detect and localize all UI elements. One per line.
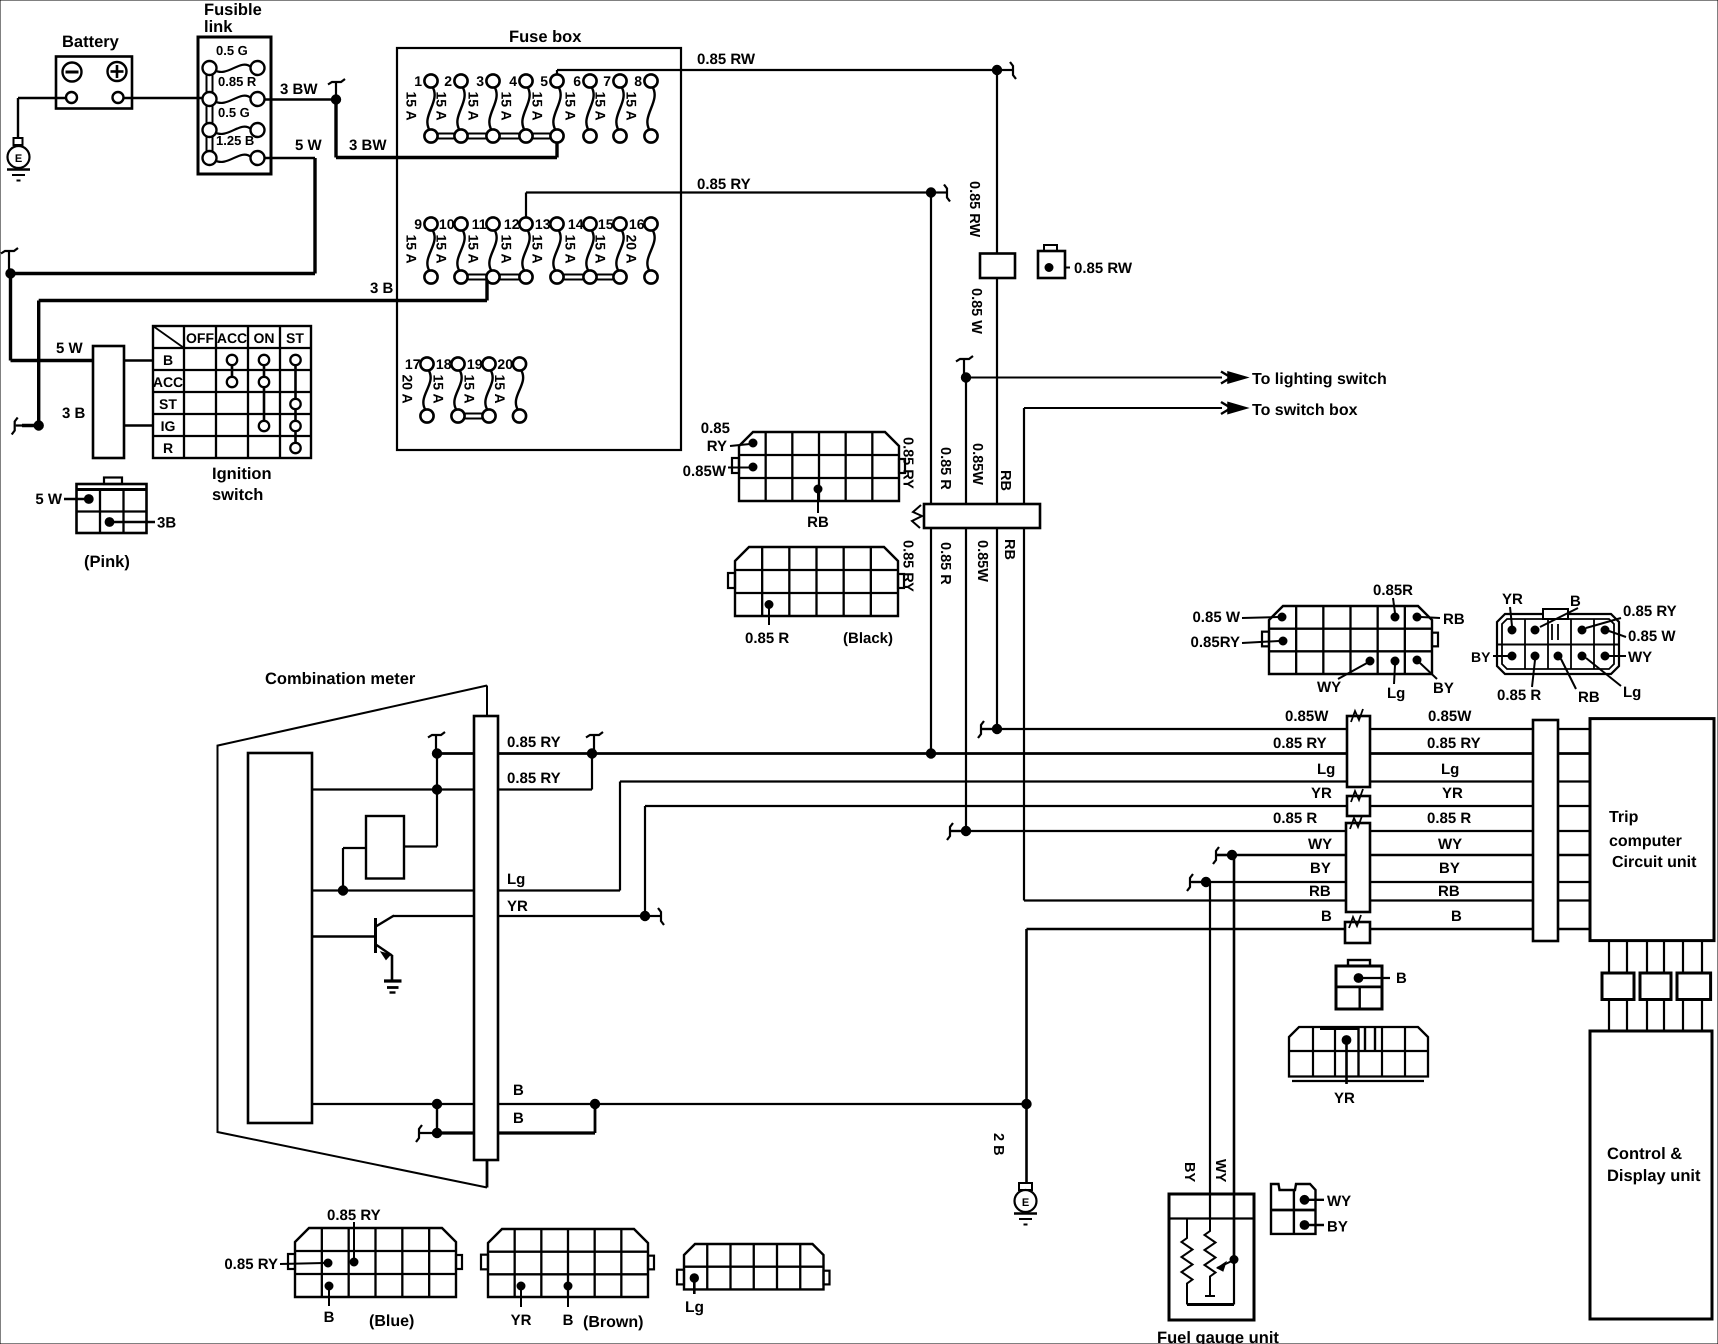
svg-text:(Black): (Black) — [843, 630, 893, 647]
svg-text:15 A: 15 A — [624, 92, 640, 121]
svg-text:0.85 R: 0.85 R — [218, 74, 257, 89]
svg-text:Control &: Control & — [1607, 1145, 1682, 1163]
svg-text:ST: ST — [159, 396, 177, 412]
svg-text:RY: RY — [707, 438, 727, 455]
svg-text:15 A: 15 A — [466, 92, 482, 121]
svg-text:0.85 RW: 0.85 RW — [966, 181, 982, 237]
svg-text:0.85W: 0.85W — [683, 463, 727, 480]
svg-text:BY: BY — [1433, 680, 1454, 697]
svg-text:15 A: 15 A — [434, 235, 450, 264]
svg-text:15 A: 15 A — [499, 235, 515, 264]
svg-text:B: B — [513, 1110, 524, 1127]
svg-text:YR: YR — [511, 1312, 532, 1329]
svg-text:To switch box: To switch box — [1252, 402, 1358, 419]
svg-text:0.5 G: 0.5 G — [216, 43, 248, 58]
svg-text:0.85W: 0.85W — [969, 443, 985, 485]
svg-text:5 W: 5 W — [56, 340, 84, 357]
svg-text:link: link — [204, 18, 233, 36]
svg-text:Lg: Lg — [1441, 761, 1459, 778]
svg-text:B: B — [563, 1312, 574, 1329]
svg-text:RB: RB — [997, 470, 1013, 491]
svg-text:Lg: Lg — [685, 1299, 704, 1316]
svg-text:(Pink): (Pink) — [84, 553, 130, 571]
svg-text:1.25 B: 1.25 B — [216, 133, 254, 148]
svg-text:3: 3 — [476, 73, 484, 89]
svg-text:0.85 RY: 0.85 RY — [1273, 735, 1327, 752]
svg-text:0.85 R: 0.85 R — [745, 630, 789, 647]
svg-text:0.85 W: 0.85 W — [968, 288, 984, 334]
svg-text:15 A: 15 A — [431, 375, 447, 404]
svg-text:15 A: 15 A — [563, 92, 579, 121]
svg-text:0.85 W: 0.85 W — [1192, 609, 1240, 626]
svg-text:OFF: OFF — [186, 330, 214, 346]
svg-text:R: R — [163, 440, 173, 456]
svg-text:Circuit unit: Circuit unit — [1612, 854, 1697, 871]
svg-text:E: E — [15, 153, 22, 165]
svg-text:0.85 RY: 0.85 RY — [900, 540, 916, 592]
svg-text:BY: BY — [1327, 1219, 1348, 1236]
svg-text:RB: RB — [1578, 689, 1600, 706]
svg-text:20 A: 20 A — [400, 375, 416, 404]
svg-text:4: 4 — [509, 73, 517, 89]
svg-text:WY: WY — [1212, 1159, 1228, 1183]
svg-text:1: 1 — [414, 73, 422, 89]
svg-text:0.85 RY: 0.85 RY — [224, 1256, 278, 1273]
svg-text:5 W: 5 W — [35, 491, 63, 508]
svg-text:15 A: 15 A — [466, 235, 482, 264]
svg-text:Fuse box: Fuse box — [509, 28, 582, 46]
svg-text:2 B: 2 B — [990, 1133, 1006, 1156]
svg-text:0.85 RY: 0.85 RY — [507, 734, 561, 751]
svg-text:ON: ON — [254, 330, 275, 346]
svg-text:2: 2 — [444, 73, 452, 89]
svg-text:B: B — [163, 352, 173, 368]
svg-text:YR: YR — [1334, 1090, 1355, 1107]
svg-text:5 W: 5 W — [295, 137, 323, 154]
svg-text:Display unit: Display unit — [1607, 1167, 1701, 1185]
svg-text:3 BW: 3 BW — [349, 137, 387, 154]
svg-text:9: 9 — [414, 216, 422, 232]
svg-text:BY: BY — [1181, 1162, 1197, 1182]
svg-text:0.85W: 0.85W — [1285, 708, 1329, 725]
svg-text:15 A: 15 A — [593, 92, 609, 121]
svg-text:B: B — [1321, 908, 1332, 925]
svg-text:RB: RB — [1443, 611, 1465, 628]
svg-text:YR: YR — [507, 898, 528, 915]
svg-text:E: E — [1022, 1197, 1029, 1209]
svg-text:0.85 RY: 0.85 RY — [507, 770, 561, 787]
svg-text:15 A: 15 A — [404, 92, 420, 121]
svg-text:3 B: 3 B — [62, 405, 86, 422]
svg-text:RB: RB — [1309, 883, 1331, 900]
svg-text:0.85 RY: 0.85 RY — [1623, 603, 1677, 620]
svg-text:Lg: Lg — [1623, 684, 1641, 701]
svg-text:15 A: 15 A — [530, 235, 546, 264]
svg-text:3B: 3B — [157, 515, 176, 532]
svg-text:To lighting switch: To lighting switch — [1252, 371, 1387, 388]
svg-text:IG: IG — [161, 418, 176, 434]
svg-text:B: B — [324, 1309, 335, 1326]
svg-text:15 A: 15 A — [492, 375, 508, 404]
svg-text:15 A: 15 A — [462, 375, 478, 404]
svg-text:20: 20 — [497, 356, 513, 372]
svg-text:0.85 W: 0.85 W — [1628, 628, 1676, 645]
svg-text:16: 16 — [629, 216, 645, 232]
svg-text:ST: ST — [286, 330, 304, 346]
svg-text:B: B — [1396, 970, 1407, 987]
svg-text:6: 6 — [573, 73, 581, 89]
svg-text:WY: WY — [1628, 649, 1652, 666]
svg-text:10: 10 — [439, 216, 455, 232]
svg-text:0.85 R: 0.85 R — [937, 447, 953, 490]
svg-text:15 A: 15 A — [404, 235, 420, 264]
svg-text:15 A: 15 A — [499, 92, 515, 121]
svg-text:8: 8 — [634, 73, 642, 89]
svg-text:ACC: ACC — [217, 330, 247, 346]
svg-text:Lg: Lg — [1317, 761, 1335, 778]
svg-text:B: B — [1570, 593, 1581, 610]
svg-text:switch: switch — [212, 486, 263, 504]
svg-text:0.85 RW: 0.85 RW — [697, 51, 756, 68]
svg-text:0.85: 0.85 — [701, 420, 730, 437]
svg-text:WY: WY — [1317, 679, 1341, 696]
svg-text:0.85 RY: 0.85 RY — [900, 437, 916, 489]
svg-text:B: B — [1451, 908, 1462, 925]
svg-text:15 A: 15 A — [593, 235, 609, 264]
svg-text:0.5 G: 0.5 G — [218, 105, 250, 120]
svg-text:15 A: 15 A — [530, 92, 546, 121]
svg-text:15 A: 15 A — [563, 235, 579, 264]
svg-text:Lg: Lg — [507, 871, 525, 888]
svg-text:11: 11 — [472, 216, 487, 232]
svg-text:Ignition: Ignition — [212, 465, 272, 483]
svg-text:WY: WY — [1438, 836, 1462, 853]
svg-text:Combination meter: Combination meter — [265, 670, 416, 688]
svg-text:YR: YR — [1311, 785, 1332, 802]
svg-text:14: 14 — [568, 216, 584, 232]
svg-text:YR: YR — [1502, 591, 1523, 608]
svg-text:0.85 RY: 0.85 RY — [1427, 735, 1481, 752]
svg-text:Lg: Lg — [1387, 685, 1405, 702]
svg-text:19: 19 — [467, 356, 483, 372]
svg-text:20 A: 20 A — [624, 235, 640, 264]
svg-text:(Blue): (Blue) — [369, 1313, 414, 1330]
svg-text:18: 18 — [436, 356, 452, 372]
svg-text:0.85W: 0.85W — [1428, 708, 1472, 725]
svg-text:13: 13 — [535, 216, 551, 232]
svg-text:15: 15 — [598, 216, 614, 232]
svg-text:0.85RY: 0.85RY — [1191, 634, 1240, 651]
svg-text:RB: RB — [807, 514, 829, 531]
svg-text:15 A: 15 A — [434, 92, 450, 121]
svg-text:WY: WY — [1308, 836, 1332, 853]
svg-text:BY: BY — [1471, 649, 1491, 665]
svg-text:0.85 RY: 0.85 RY — [697, 176, 751, 193]
svg-text:ACC: ACC — [153, 374, 183, 390]
svg-text:12: 12 — [504, 216, 520, 232]
svg-text:Battery: Battery — [62, 33, 120, 51]
svg-text:RB: RB — [1438, 883, 1460, 900]
svg-text:(Brown): (Brown) — [583, 1314, 643, 1331]
svg-text:WY: WY — [1327, 1193, 1351, 1210]
svg-text:0.85 R: 0.85 R — [937, 542, 953, 585]
svg-text:0.85 RW: 0.85 RW — [1074, 260, 1133, 277]
svg-text:YR: YR — [1442, 785, 1463, 802]
svg-text:0.85R: 0.85R — [1373, 582, 1413, 599]
svg-text:17: 17 — [405, 356, 421, 372]
svg-text:B: B — [513, 1082, 524, 1099]
svg-text:RB: RB — [1001, 539, 1017, 560]
svg-text:Trip: Trip — [1609, 809, 1639, 826]
svg-text:BY: BY — [1439, 860, 1460, 877]
svg-text:0.85 R: 0.85 R — [1497, 687, 1541, 704]
svg-text:5: 5 — [540, 73, 548, 89]
svg-text:3 BW: 3 BW — [280, 81, 318, 98]
svg-text:0.85W: 0.85W — [974, 540, 990, 582]
svg-text:0.85 R: 0.85 R — [1427, 810, 1471, 827]
svg-text:computer: computer — [1609, 833, 1682, 850]
svg-text:0.85 RY: 0.85 RY — [327, 1207, 381, 1224]
svg-text:7: 7 — [603, 73, 611, 89]
svg-text:Fusible: Fusible — [204, 1, 262, 19]
svg-text:3 B: 3 B — [370, 280, 394, 297]
svg-text:0.85 R: 0.85 R — [1273, 810, 1317, 827]
svg-text:BY: BY — [1310, 860, 1331, 877]
svg-text:Fuel gauge unit: Fuel gauge unit — [1157, 1329, 1279, 1344]
